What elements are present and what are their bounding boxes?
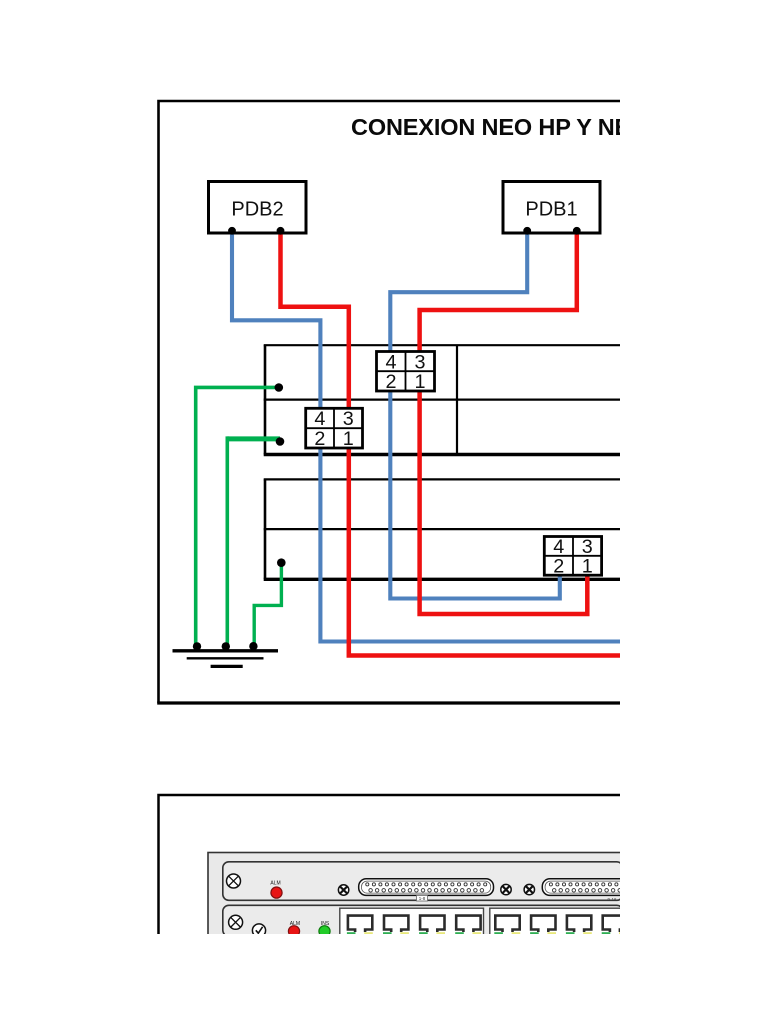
svg-text:1: 1 bbox=[414, 371, 425, 393]
ground dot 3 bbox=[249, 642, 257, 650]
label 1-8 under connector J1 bbox=[417, 895, 428, 901]
terminal dot PDB1 left (blue feed) bbox=[523, 227, 531, 235]
ground dot 2 bbox=[222, 642, 230, 650]
equipment panel (front view, clipped right/bottom) bbox=[208, 853, 623, 937]
screw top-left row1 bbox=[227, 874, 241, 888]
svg-text:ALM: ALM bbox=[270, 881, 280, 887]
svg-text:1: 1 bbox=[343, 428, 354, 450]
LED INS row2 (green, clipped) bbox=[319, 926, 330, 937]
wire red PDB2 (to lower right, clipped) bbox=[281, 233, 623, 656]
svg-text:PDB2: PDB2 bbox=[231, 199, 283, 221]
svg-text:2: 2 bbox=[553, 555, 564, 577]
screw row2 second (partially clipped) bbox=[252, 924, 265, 937]
box PDB2 bbox=[209, 182, 307, 234]
screw left of connector J1 bbox=[338, 885, 348, 895]
connector J2 pins bbox=[549, 883, 624, 892]
terminal block TB3 (shelf S2 row2) pins 4/3/2/1 bbox=[544, 536, 601, 577]
screw top-left row2 bbox=[229, 915, 243, 929]
RJ45 jacks group 2 bbox=[494, 916, 627, 935]
svg-text:4: 4 bbox=[385, 351, 396, 373]
node dot shelf S2 row2 (ground tap) bbox=[277, 558, 286, 567]
wire GND green 2 (shelf S1 row2 to ground bar) bbox=[227, 436, 280, 441]
svg-text:2: 2 bbox=[314, 428, 325, 450]
svg-text:1: 1 bbox=[582, 555, 593, 577]
node dot shelf S1 row1 (ground tap) bbox=[275, 383, 284, 392]
svg-text:1-8: 1-8 bbox=[419, 896, 426, 901]
box PDB1 bbox=[503, 182, 600, 234]
screw left of connector J2 bbox=[524, 884, 534, 894]
connector J1 pins bbox=[366, 883, 487, 892]
terminal block TB2 (shelf S1 row2) pins 4/3/2/1 bbox=[306, 408, 363, 450]
wire GND green 3 (shelf S2 row2 to ground bar) bbox=[254, 562, 281, 648]
terminal block TB1 (shelf S1 row1) pins 4/3/2/1 bbox=[377, 351, 435, 393]
connector J1 (DB multi-pin 1-8) bbox=[359, 879, 494, 896]
jack group 1 frame bbox=[340, 908, 484, 938]
svg-text:9-16: 9-16 bbox=[607, 897, 617, 902]
shelf S1 outline (upper subrack, two rows) bbox=[264, 345, 622, 454]
svg-text:2: 2 bbox=[385, 371, 396, 393]
svg-text:CONEXION NEO HP Y NEO: CONEXION NEO HP Y NEO bbox=[351, 114, 620, 140]
svg-text:4: 4 bbox=[314, 408, 325, 430]
terminal dot PDB1 right (red feed) bbox=[573, 227, 581, 235]
terminal dot PDB2 left (blue feed) bbox=[228, 227, 236, 235]
connector J2 (DB multi-pin 9-16, clipped) bbox=[542, 879, 677, 896]
screw right of connector J1 bbox=[501, 884, 511, 894]
shelf S2 outline (lower subrack, two rows) bbox=[264, 479, 622, 579]
RJ45 jacks group 1 bbox=[347, 916, 481, 935]
svg-text:3: 3 bbox=[343, 408, 354, 430]
svg-text:3: 3 bbox=[414, 351, 425, 373]
LED ALM row2 (red, clipped) bbox=[288, 926, 299, 937]
wire blue PDB1 (to terminal block TB3 pin2) bbox=[390, 233, 560, 599]
svg-text:PDB1: PDB1 bbox=[525, 199, 577, 221]
wire blue PDB2 (to lower right, clipped) bbox=[232, 233, 622, 642]
jack group 2 frame (clipped) bbox=[490, 908, 630, 938]
node dot shelf S1 row2 (ground tap) bbox=[276, 437, 285, 446]
wire GND green 1 (shelf S1 row1 to ground bar) bbox=[196, 387, 280, 648]
frame F1 (outer diagram border, clipped at right) bbox=[159, 101, 623, 703]
wire red PDB1 (to terminal block TB3 pin1) bbox=[420, 233, 588, 614]
frame F2 (second figure border, clipped) bbox=[159, 795, 623, 936]
ground dot 1 bbox=[193, 642, 201, 650]
ground symbol (three bars) bbox=[173, 651, 279, 667]
LED ALM row1 (red) bbox=[271, 887, 282, 898]
terminal dot PDB2 right (red feed) bbox=[277, 227, 285, 235]
